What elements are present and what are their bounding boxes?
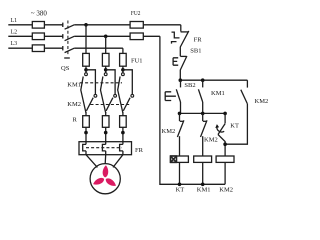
svg-text:SB2: SB2	[184, 82, 195, 89]
svg-text:KM1: KM1	[197, 186, 211, 193]
svg-text:KM2: KM2	[204, 136, 218, 143]
svg-text:~ 380: ~ 380	[31, 9, 48, 17]
svg-text:KM2: KM2	[219, 186, 233, 193]
svg-text:KM2: KM2	[255, 98, 269, 105]
svg-text:L3: L3	[11, 41, 18, 47]
svg-text:KM1: KM1	[67, 81, 81, 88]
svg-text:L1: L1	[11, 18, 18, 24]
svg-text:FU2: FU2	[131, 10, 141, 17]
svg-text:SB1: SB1	[190, 48, 201, 55]
svg-text:L2: L2	[11, 29, 18, 35]
svg-text:FR: FR	[194, 36, 203, 43]
svg-text:KM2: KM2	[162, 128, 176, 135]
svg-text:KM1: KM1	[211, 90, 225, 97]
svg-text:KT: KT	[176, 186, 185, 193]
svg-text:FU1: FU1	[131, 58, 143, 65]
svg-text:R: R	[73, 116, 78, 123]
svg-text:FR: FR	[135, 147, 144, 154]
svg-text:KM2: KM2	[67, 101, 81, 108]
svg-text:QS: QS	[61, 65, 70, 72]
svg-text:KT: KT	[230, 123, 239, 130]
